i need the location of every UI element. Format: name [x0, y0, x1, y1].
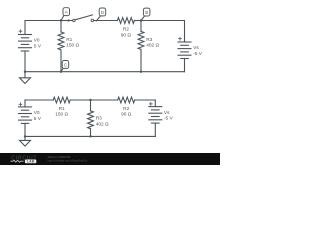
battery V0 top stub	[24, 21, 26, 35]
resistor R1 top lead	[60, 21, 62, 32]
switch SW1 pin dot	[67, 19, 69, 21]
node C label pointer	[61, 69, 63, 72]
node B junction dot	[140, 19, 142, 21]
wire R2 right lead to node B	[134, 20, 141, 22]
svg-text:150 Ω: 150 Ω	[55, 112, 68, 118]
resistor R1 zigzag	[58, 32, 64, 50]
node B label pointer	[141, 16, 144, 20]
resistor R3 top lead	[140, 21, 142, 32]
footer bar	[0, 153, 220, 165]
battery V0b plus sign	[19, 103, 22, 105]
battery V0 plus sign	[19, 30, 22, 32]
battery V0b top stub	[24, 100, 26, 107]
resistor R3 zigzag	[138, 31, 144, 49]
wire node A to switch left terminal	[61, 20, 73, 22]
svg-text:-5 V: -5 V	[193, 51, 203, 57]
battery V0 bottom stub	[24, 51, 26, 72]
node D label box	[99, 8, 106, 16]
svg-text:5 V: 5 V	[34, 116, 42, 122]
svg-text:LAB: LAB	[27, 160, 35, 164]
svg-text:402 Ω: 402 Ω	[96, 122, 109, 128]
bottom rail (top circuit)	[25, 71, 185, 73]
ground symbol (bottom circuit)	[24, 136, 26, 140]
node B label box	[143, 8, 150, 16]
battery Vsb bottom stub	[154, 123, 156, 136]
wire corner down to battery Vsb	[154, 100, 156, 107]
battery Vsb plus sign	[149, 103, 152, 105]
ground junction dot (top circuit)	[24, 71, 26, 73]
svg-text:R2: R2	[123, 27, 129, 33]
switch SW1 left contact circle	[73, 19, 76, 22]
wire R2b to top-right corner	[135, 99, 156, 101]
svg-text:402 Ω: 402 Ω	[146, 42, 159, 48]
svg-text:Vs: Vs	[193, 45, 199, 51]
battery V0b bottom stub	[24, 123, 26, 136]
battery Vs plus sign	[179, 38, 182, 40]
R3b top junction dot	[89, 99, 91, 101]
wire node B to top-right corner	[141, 20, 185, 22]
battery Vsb plates	[149, 106, 162, 108]
svg-text:150 Ω: 150 Ω	[66, 43, 79, 49]
ground junction dot (bottom circuit)	[24, 135, 26, 137]
svg-text:90 Ω: 90 Ω	[121, 112, 132, 118]
CircuitLab logo LAB box	[25, 160, 36, 164]
svg-text:R3: R3	[96, 116, 102, 122]
svg-text:90 Ω: 90 Ω	[121, 32, 132, 38]
battery Vs bottom stub	[184, 59, 186, 72]
svg-text:V0: V0	[34, 38, 40, 44]
node A junction dot	[60, 19, 62, 21]
svg-text:A: A	[65, 10, 68, 15]
svg-text:R3: R3	[146, 37, 152, 43]
svg-text:-5 V: -5 V	[164, 115, 174, 121]
node C label box	[62, 61, 68, 69]
resistor R1 bottom lead	[60, 50, 62, 72]
bottom rail (bottom circuit)	[25, 135, 155, 137]
resistor R3 bottom lead	[140, 49, 142, 71]
node A label pointer	[61, 16, 64, 21]
resistor R2b zigzag	[118, 97, 135, 103]
switch SW1 lever	[75, 15, 92, 20]
wire right side down to battery Vs	[184, 21, 186, 43]
wire switch right terminal to R2 left lead (node D)	[94, 20, 118, 22]
battery V0b plates	[19, 106, 32, 108]
svg-text:Author | CIRCUIT: Author | CIRCUIT	[48, 155, 71, 159]
wire top rail: V0 top to node A	[25, 20, 61, 22]
node A label box	[63, 8, 70, 16]
switch SW1 right contact circle	[91, 19, 94, 22]
CircuitLab logo zigzag	[11, 160, 24, 162]
resistor R3b bottom lead	[90, 129, 92, 137]
node D label pointer	[96, 16, 100, 21]
svg-text:B: B	[145, 10, 148, 15]
svg-text:V0: V0	[34, 110, 40, 116]
svg-text:http://circuitlab.com/c/5wq43a: http://circuitlab.com/c/5wq43abh3c	[48, 159, 88, 163]
resistor R1b zigzag	[53, 97, 70, 103]
svg-text:R2: R2	[123, 106, 129, 112]
wire top rail: V0 to R1	[25, 99, 53, 101]
resistor R3b top lead	[90, 100, 92, 111]
node C junction dot	[60, 71, 62, 73]
svg-text:R1: R1	[66, 37, 72, 43]
svg-text:R1: R1	[59, 106, 65, 112]
svg-text:5 V: 5 V	[34, 44, 42, 50]
ground symbol (top circuit)	[24, 72, 26, 78]
svg-text:Vs: Vs	[164, 110, 170, 116]
battery Vs plates (top circuit)	[178, 41, 191, 43]
R3b bottom junction dot	[89, 135, 91, 137]
resistor R2 zigzag	[117, 18, 134, 24]
resistor R3b zigzag	[88, 111, 94, 129]
R3 bottom junction dot	[140, 71, 142, 73]
wire R1b to R3b junction to R2b	[70, 99, 118, 101]
battery V0 plates	[19, 34, 32, 36]
